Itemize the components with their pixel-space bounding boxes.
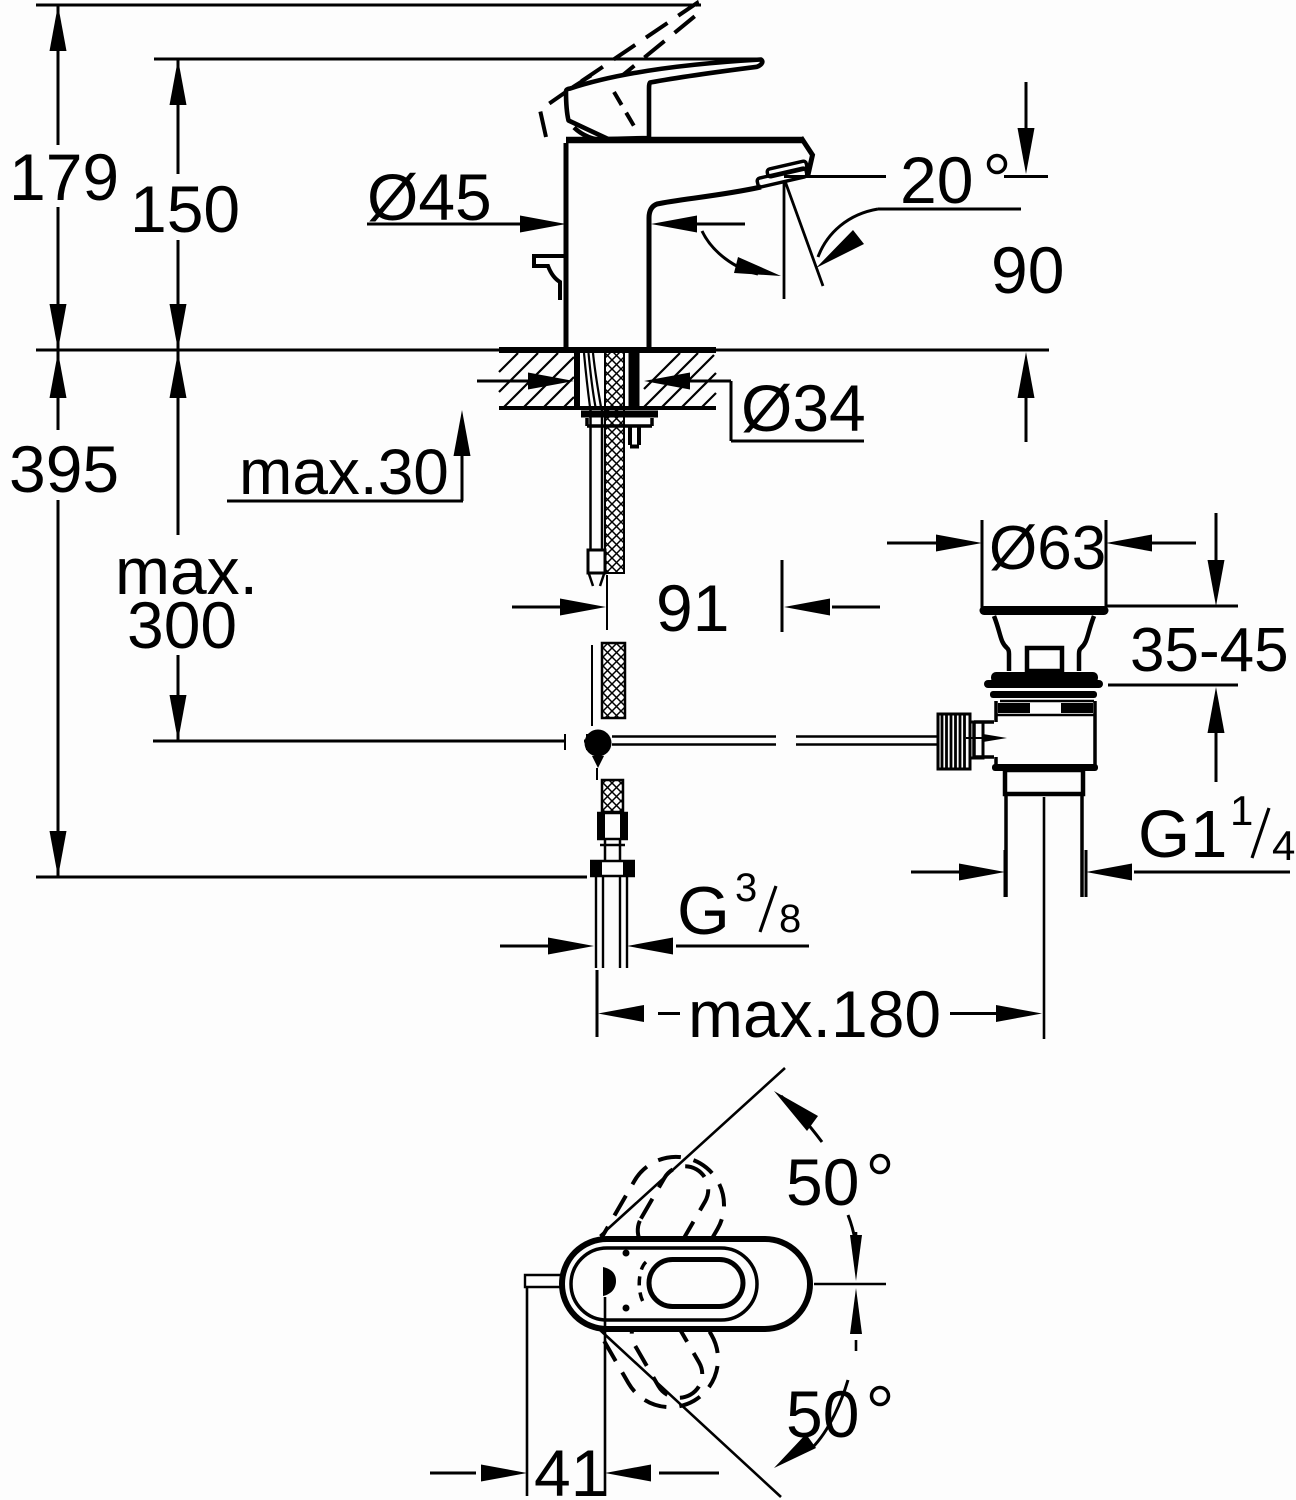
svg-text:395: 395 bbox=[9, 432, 119, 506]
svg-text:150: 150 bbox=[130, 172, 240, 246]
svg-text:4: 4 bbox=[1272, 822, 1295, 869]
svg-text:41: 41 bbox=[534, 1436, 607, 1500]
svg-text:max.180: max.180 bbox=[688, 977, 941, 1051]
svg-text:1: 1 bbox=[1230, 787, 1253, 834]
svg-text:20: 20 bbox=[900, 143, 973, 217]
svg-text:G: G bbox=[677, 873, 730, 949]
svg-text:300: 300 bbox=[127, 588, 237, 662]
svg-text:50: 50 bbox=[786, 1145, 859, 1219]
svg-text:3: 3 bbox=[735, 866, 757, 910]
svg-text:90: 90 bbox=[991, 233, 1064, 307]
svg-text:Ø63: Ø63 bbox=[989, 514, 1106, 583]
svg-text:8: 8 bbox=[779, 897, 801, 941]
svg-text:179: 179 bbox=[9, 140, 119, 214]
svg-text:50: 50 bbox=[786, 1377, 859, 1451]
svg-text:max.30: max.30 bbox=[239, 436, 449, 508]
svg-text:Ø34: Ø34 bbox=[741, 371, 866, 445]
svg-text:35-45: 35-45 bbox=[1130, 616, 1289, 685]
svg-text:91: 91 bbox=[656, 571, 729, 645]
svg-text:G1: G1 bbox=[1138, 797, 1227, 872]
